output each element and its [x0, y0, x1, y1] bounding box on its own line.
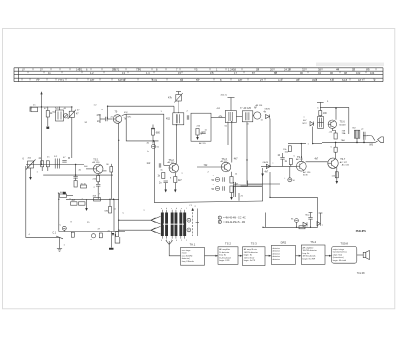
svg-text:1.6: 1.6 [210, 71, 214, 75]
resistor R26 [334, 133, 337, 139]
block box DR2 [271, 240, 295, 264]
wire T2 drop [227, 122, 229, 146]
svg-text:1k detector: 1k detector [219, 251, 229, 254]
gang trimmer bottom [187, 228, 191, 232]
wire T3 drop [247, 122, 280, 184]
transistor TS6 [328, 120, 336, 128]
svg-text:begin: 4x PF: begin: 4x PF [244, 260, 256, 262]
wire TS3 collector [231, 122, 233, 163]
svg-text:begin: Mx total: begin: Mx total [333, 259, 347, 262]
wire gang link top [119, 219, 151, 221]
svg-text:detector: detector [273, 255, 281, 258]
svg-text:osc stage: osc stage [182, 249, 192, 252]
diode D5 [303, 222, 307, 226]
antenna coupling box L1 [31, 107, 38, 112]
wire vert x114 [113, 199, 115, 231]
gang chevron top [151, 216, 161, 224]
svg-text:detector): detector) [182, 257, 190, 260]
svg-text:64.8: 64.8 [342, 78, 348, 82]
block box TS 2 [218, 242, 238, 265]
ground G2 [110, 232, 112, 248]
misc value labels [28, 101, 364, 247]
resistor R6 [152, 129, 155, 135]
wire TS7 base rail [306, 161, 328, 163]
wire TS3 base [197, 166, 221, 168]
transistor TS3 [221, 162, 231, 172]
capacitor C11 [187, 115, 189, 119]
wire lower rail [26, 164, 84, 166]
wire TS6 emitter [332, 128, 335, 133]
resistor R30 [41, 161, 44, 167]
wire base rail TS2 [164, 164, 169, 166]
svg-text:ampl. final: ampl. final [333, 254, 343, 256]
ground G1 [57, 249, 62, 252]
IF transformer T1 [173, 113, 184, 125]
svg-text:= 4M-4S-4M - CC -4C: = 4M-4S-4M - CC -4C [223, 218, 246, 220]
gang trimmer top [187, 218, 191, 222]
resistor R21 [288, 146, 291, 152]
wire C3 drop [71, 107, 73, 111]
wire detector down [270, 172, 318, 197]
svg-text:output stage: output stage [333, 248, 345, 251]
wire bottom rail left [59, 231, 125, 233]
wire lowleft rail [66, 198, 119, 200]
wire TS2 collector [176, 125, 178, 164]
block antenna icon [166, 240, 181, 256]
capacitor C40 [308, 218, 312, 220]
IF transformer T3 [242, 111, 253, 122]
svg-text:AF 116: AF 116 [256, 104, 264, 107]
svg-text:mixer: mixer [182, 252, 187, 255]
svg-text:1M-7M detector: 1M-7M detector [303, 249, 318, 252]
capacitor C5 [106, 117, 108, 121]
resistor R28 [335, 172, 338, 178]
wire D3 drop [312, 127, 314, 144]
svg-text:TS 2: TS 2 [225, 242, 231, 246]
dial scale band lines [14, 68, 383, 82]
trimmer C3 [68, 110, 76, 119]
elco C7 [151, 144, 155, 148]
svg-text:1 2458: 1 2458 [228, 68, 236, 72]
svg-text:24 28: 24 28 [284, 68, 291, 72]
svg-text:freq: 8x: freq: 8x [219, 254, 226, 257]
emitter cluster TS1 [103, 170, 107, 172]
svg-text:TS 3: TS 3 [251, 242, 257, 246]
wire S1 leads [59, 107, 61, 110]
svg-text:1.4: 1.4 [146, 71, 150, 75]
resistor R36 [60, 194, 67, 197]
junction dot [153, 140, 155, 142]
block box TS.4 [301, 240, 325, 264]
wire to ground [59, 237, 61, 248]
svg-text:AF amplifier: AF amplifier [303, 246, 314, 249]
dial scale numbers [22, 68, 376, 82]
svg-text:begin: 8x 7BF: begin: 8x 7BF [303, 258, 316, 260]
svg-text:1.2: 1.2 [90, 71, 94, 75]
resistor R33 [97, 176, 100, 182]
svg-text:AC 126: AC 126 [303, 171, 311, 174]
wire bottom rail mid [154, 201, 263, 203]
wire AF box bottom [263, 197, 318, 227]
svg-text:60 B: 60 B [303, 174, 308, 176]
resistor R15 [230, 177, 233, 184]
wire junction dots [41, 106, 358, 231]
svg-text:(transistors): (transistors) [333, 256, 344, 259]
bottom components C35 [62, 226, 66, 230]
wire TS1 collector drop [97, 174, 99, 176]
svg-text:4.4: 4.4 [278, 78, 282, 82]
svg-text:BU: BU [353, 128, 356, 130]
svg-text:TS.7: TS.7 [340, 158, 346, 161]
coil S2 [55, 159, 59, 169]
wire volume line A [262, 168, 264, 201]
transistor TS7 [328, 158, 338, 168]
wire R6 top [152, 125, 154, 129]
bottom components R41 [99, 233, 102, 238]
jack loop wire [367, 135, 375, 140]
wire R25 to T4 [319, 115, 321, 118]
svg-text:AF 117: AF 117 [296, 158, 304, 161]
resistor R31 [46, 161, 49, 167]
top stub T2 [230, 98, 232, 111]
svg-text:452: 452 [166, 118, 171, 121]
svg-text:AF 125: AF 125 [244, 107, 252, 110]
svg-text:5 8: 5 8 [330, 78, 334, 82]
transistor TS1 [93, 164, 103, 174]
svg-text:5 7: 5 7 [196, 78, 200, 82]
svg-text:detector: detector [273, 247, 281, 250]
wire output top stub [319, 102, 321, 110]
svg-text:AC 127: AC 127 [340, 161, 348, 164]
scan smudge [316, 63, 384, 67]
svg-text:begin: 8 PF: begin: 8 PF [219, 260, 230, 262]
svg-text:PHILIPS: PHILIPS [356, 229, 366, 233]
svg-text:= 40k-4k-25k-7k - 4M: = 40k-4k-25k-7k - 4M [223, 222, 245, 224]
resistor R10 [162, 173, 165, 179]
svg-text:transformerless: transformerless [333, 251, 347, 254]
resistor R20 [289, 159, 292, 165]
component R37 [71, 202, 78, 205]
footnote line 2 [218, 220, 221, 223]
gang frame line [196, 209, 198, 237]
gang shaft dashed [192, 209, 194, 236]
svg-text:AF 117: AF 117 [168, 161, 176, 164]
svg-text:6 0: 6 0 [366, 68, 370, 72]
svg-text:AC 132: AC 132 [342, 163, 350, 166]
resistor R45 [299, 226, 305, 229]
svg-text:DR2: DR2 [281, 240, 287, 244]
tuning gang C-gang bars [161, 210, 186, 239]
svg-text:AF 126: AF 126 [92, 161, 100, 164]
resistor R1 [46, 111, 49, 118]
wire gang link bottom [119, 229, 151, 231]
capacitor C2 blob [46, 127, 49, 129]
svg-text:detector: detector [273, 258, 281, 261]
antenna A1 mast [40, 91, 42, 164]
wire top rail [30, 106, 72, 108]
wire lowleft vertical [58, 193, 60, 232]
block box TS5-8 [332, 241, 357, 263]
svg-text:AF amplifier: AF amplifier [219, 248, 230, 251]
capacitor C32 [73, 177, 77, 179]
resistor R16 [230, 186, 233, 193]
svg-text:452 2x: 452 2x [221, 95, 228, 97]
wire T2-T3 link [237, 116, 243, 118]
wire IF out drop [269, 119, 271, 167]
earphone WS [375, 137, 383, 143]
block speaker icon [357, 251, 370, 260]
resistor R11 [174, 177, 177, 183]
jack socket BU1 [354, 130, 359, 138]
wire mixer emitter down [118, 123, 120, 230]
capacitor C23 [280, 158, 284, 160]
svg-text:7 7: 7 7 [36, 78, 40, 82]
diode D1 [266, 115, 270, 119]
svg-text:1M-1N detector: 1M-1N detector [244, 251, 258, 254]
shielded cable [233, 184, 262, 186]
elco C20 [215, 177, 219, 181]
svg-text:8 31: 8 31 [152, 78, 158, 82]
svg-text:TA.1: TA.1 [190, 242, 196, 246]
svg-text:102: 102 [356, 71, 361, 75]
resistor R35 [81, 185, 87, 188]
wire left drop [29, 107, 31, 112]
svg-text:osc 452kHz: osc 452kHz [182, 255, 193, 257]
svg-text:1k/7-4 freq*: 1k/7-4 freq* [244, 256, 255, 259]
wire TS7 down [336, 168, 338, 182]
IF transformer T2 [225, 111, 236, 123]
svg-text:TS.1: TS.1 [93, 159, 99, 162]
svg-text:187: 187 [238, 78, 243, 82]
diode D6 [317, 222, 320, 226]
wire output rail [313, 143, 322, 145]
svg-text:470: 470 [97, 114, 102, 117]
wire left loop [26, 166, 60, 237]
elco C21 [215, 186, 219, 190]
svg-text:freq: 8 Bands: freq: 8 Bands [182, 260, 194, 263]
elco C41 [295, 219, 299, 223]
wire mixer top line [108, 105, 174, 107]
wire jack stubs [356, 138, 358, 142]
svg-text:7771: 7771 [58, 78, 64, 82]
svg-text:1k-freq band: 1k-freq band [219, 256, 231, 259]
dashed link C10 to IFT1 [178, 102, 180, 113]
svg-text:kHz: kHz [128, 117, 132, 119]
wire mixer base [100, 118, 106, 120]
transistor TS4 [296, 161, 306, 171]
resistor R25 [319, 111, 322, 116]
wire lower rail2 [43, 174, 113, 176]
elco C50 [288, 178, 292, 182]
svg-text:detector: detector [273, 250, 281, 253]
wire mixer collector loop [122, 114, 126, 115]
transistor TS2-IF small [253, 112, 261, 119]
jack plug symbol [363, 132, 367, 140]
svg-text:1M freq bands: 1M freq bands [303, 255, 316, 258]
wire long vertical left [153, 141, 155, 203]
block box TA.1 [181, 242, 205, 265]
driver transformer T4 [318, 117, 324, 129]
osc coupling circle [63, 114, 67, 118]
wire T1-T2 link [211, 117, 225, 119]
wire S1-circle [63, 115, 65, 117]
svg-text:WS: WS [369, 144, 373, 147]
gang chevron bottom [151, 226, 161, 234]
tuning coil L5 [26, 160, 36, 171]
dial scale tick marks [22, 68, 376, 81]
svg-text:begin: 8x: begin: 8x [244, 255, 252, 257]
bottom components R40 [71, 232, 74, 237]
svg-text:NTC: NTC [303, 123, 308, 125]
svg-text:0 8 9 6 2 1: 0 8 9 6 2 1 [161, 240, 189, 242]
svg-text:AF 115: AF 115 [199, 142, 207, 145]
svg-text:73 6: 73 6 [136, 68, 142, 72]
footnote line 1 [218, 216, 221, 219]
capacitor C33 [63, 192, 66, 195]
svg-text:78A: 78A [342, 132, 346, 135]
svg-text:TS5-8: TS5-8 [340, 241, 348, 245]
diode D3 [310, 122, 314, 126]
component C31 [96, 185, 100, 187]
resistor R34 [74, 181, 77, 188]
oscillator coil S1 [56, 110, 64, 121]
svg-text:145.1: 145.1 [76, 68, 83, 72]
svg-text:49.8: 49.8 [312, 78, 318, 82]
trimmer C10 [174, 93, 183, 103]
svg-text:64739: 64739 [118, 78, 126, 82]
capacitor C14 [164, 181, 168, 183]
svg-text:freq: 8x: freq: 8x [303, 252, 310, 255]
svg-text:a b c d e f: a b c d e f [161, 208, 188, 210]
wire R1 lead [47, 107, 49, 111]
wire R3x leads [41, 167, 43, 171]
gang arrow [191, 208, 194, 211]
wire U link [115, 234, 120, 243]
capacitor C30 [62, 161, 66, 163]
wire arrow drop mid [86, 199, 88, 208]
resistor R27 [334, 147, 337, 152]
svg-text:53671: 53671 [112, 68, 120, 72]
svg-text:detector: detector [273, 252, 281, 255]
svg-text:AF ampl 8 mix: AF ampl 8 mix [244, 248, 257, 251]
svg-text:OA79: OA79 [263, 161, 269, 164]
wire box bottom stubs [265, 213, 267, 228]
svg-text:104: 104 [370, 71, 375, 75]
wire C10 stub [178, 92, 180, 95]
cable stub [241, 181, 248, 187]
svg-text:60148: 60148 [339, 124, 346, 126]
components in shield box [196, 129, 199, 136]
svg-text:TS.6: TS.6 [340, 121, 346, 124]
wire TS4 top [300, 144, 302, 162]
transistor TS2 [169, 163, 179, 173]
block connecting arrows [205, 255, 332, 257]
svg-text:TS.4: TS.4 [310, 240, 316, 244]
junction low rail [113, 199, 115, 201]
resistor R38 [94, 198, 101, 201]
svg-text:680: 680 [156, 132, 161, 135]
transistor TS1-mixer [113, 115, 122, 124]
volume pot D2 [266, 164, 270, 168]
svg-text:187: 187 [90, 78, 95, 82]
shield box stage [191, 113, 211, 141]
svg-text:7CL 08: 7CL 08 [357, 272, 365, 275]
wire TS1 base lead [86, 168, 93, 170]
wire AGC right [238, 193, 240, 201]
junction J3 [335, 142, 337, 144]
resistor R39 [109, 207, 112, 214]
svg-text:OA70: OA70 [265, 108, 271, 111]
svg-text:AF 117: AF 117 [221, 160, 229, 163]
block box TS 3 [243, 242, 266, 266]
wire det rail [261, 165, 296, 167]
svg-text:18 7: 18 7 [358, 78, 364, 82]
wire L5 arrow drop [30, 168, 32, 177]
